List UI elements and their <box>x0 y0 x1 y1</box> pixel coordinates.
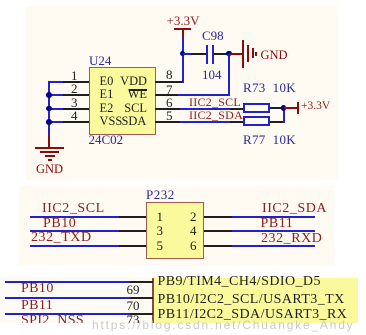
wire junction to C98 (blue) <box>183 53 192 55</box>
wire net IIC2_SDA from P232 (blue) <box>232 216 316 218</box>
wire net 232_RXD from P232 (blue) <box>232 245 316 247</box>
U24 pin 8 (black) <box>155 81 182 83</box>
ground (right) bar 2 <box>247 45 249 62</box>
pin number 73 <box>127 313 140 326</box>
wire to U24 pin 2 (blue) <box>49 94 63 96</box>
U24 pin name VDD <box>120 75 147 87</box>
U24 pin name WE (active low) <box>128 88 147 100</box>
power label +3.3V (right) <box>301 101 330 113</box>
ground (right) bar 4 <box>255 52 257 56</box>
P232 pin 5 (black) <box>119 245 147 247</box>
R73 right pin (black) <box>270 107 284 109</box>
value 24C02 <box>89 133 124 146</box>
P232 pin 2 (black) <box>204 216 232 218</box>
junction at pin 2 bus <box>46 92 52 98</box>
wire to U24 pin 4 (blue) <box>49 121 63 123</box>
connector P232 body <box>146 202 204 259</box>
watermark <box>92 319 354 331</box>
R73 left pin (black) <box>230 108 243 110</box>
pin number 1 <box>71 69 78 82</box>
ground label GND (right) <box>261 49 288 62</box>
MCU pin 69 (black) <box>130 297 153 299</box>
MCU pin 70 (black) <box>130 313 153 315</box>
designator P232 <box>146 188 175 201</box>
junction pullup rail <box>281 105 287 111</box>
overline of WE <box>129 89 148 90</box>
wire PB9 row (blue) <box>5 281 130 283</box>
U24 pin name E1 <box>100 88 114 100</box>
designator C98 <box>202 29 224 42</box>
MCU pin name PB9/TIM4_CH4/SDIO_D5 <box>158 275 321 289</box>
schematic background top strip <box>26 6 338 180</box>
wire net PB11 (blue) <box>5 313 130 315</box>
pin number 70 <box>127 299 140 312</box>
net label IIC2_SDA <box>189 109 243 121</box>
U24 pin 4 (black) <box>63 121 90 123</box>
R77 left pin (black) <box>230 121 243 123</box>
pin number 2 <box>71 82 78 95</box>
MCU pin name PB10/I2C2_SCL/USART3_TX <box>158 293 345 307</box>
wire net 232_TXD to P232 (blue) <box>30 245 119 247</box>
P232 pin 3 (black) <box>119 230 147 232</box>
C98 right pin (black) <box>214 53 229 55</box>
EEPROM U24 body <box>89 67 156 135</box>
pin number 8 <box>166 68 173 81</box>
pin number 7 <box>166 83 173 96</box>
net label 232_RXD <box>261 232 322 246</box>
wire to U24 pin 3 (blue) <box>49 108 63 110</box>
ground bar 1 <box>35 147 64 149</box>
net label PB10 (bottom) <box>21 282 54 296</box>
U24 pin 1 (black) <box>63 81 90 83</box>
net label SPI2_NSS <box>21 314 84 328</box>
MCU pin name PB11/I2C2_SDA/USART3_RX <box>158 308 348 322</box>
capacitor C98 plate right <box>212 45 214 64</box>
pin number 5 <box>166 109 173 122</box>
wire WE net vertical (blue) <box>228 54 230 97</box>
pin number 3 <box>71 96 78 109</box>
U24 pin 7 (black) <box>155 94 178 96</box>
ground (right) bar 3 <box>252 48 254 58</box>
ground (right) bar 1 <box>242 40 244 69</box>
U24 pin name SDA <box>122 115 147 127</box>
resistor R73 <box>243 103 270 113</box>
wire net IIC2_SCL (blue) <box>180 108 230 110</box>
ground bar 2 <box>40 151 59 153</box>
wire net PB10 to P232 (blue) <box>30 230 119 232</box>
pin number 4 <box>71 109 78 122</box>
designator R77 value 10K <box>243 133 296 146</box>
P232 pin number 2 <box>190 210 197 223</box>
MCU pin PB9 (black) <box>130 281 153 283</box>
P232 pin number 3 <box>157 224 164 237</box>
junction C98 / WE net / GND <box>226 51 232 57</box>
crop mask bottom <box>0 323 366 335</box>
net label IIC2_SCL <box>189 96 241 108</box>
value 104 <box>202 68 222 81</box>
wire net IIC2_SDA (blue) <box>180 121 230 123</box>
pin number 69 <box>127 283 140 296</box>
U24 pin 6 (black) <box>155 108 180 110</box>
ground label GND <box>36 163 63 176</box>
P232 pin number 5 <box>157 239 164 252</box>
junction at pin 4 bus <box>46 119 52 125</box>
MCU body fragment (yellow) <box>154 278 358 323</box>
U24 pin 5 (black) <box>155 121 180 123</box>
wire net PB10 (blue) <box>5 297 130 299</box>
wire to U24 pin 1 (blue) <box>48 81 63 83</box>
R77 right pin (black) <box>270 121 284 123</box>
power bar +3.3V (top) <box>174 28 192 30</box>
wire net IIC2_SCL to P232 (blue) <box>30 216 119 218</box>
pin number 6 <box>166 96 173 109</box>
P232 pin number 4 <box>190 224 197 237</box>
wire +3.3V rail down to pin 8 (blue) <box>182 38 184 83</box>
P232 pin 1 (black) <box>119 216 147 218</box>
U24 pin 3 (black) <box>63 108 90 110</box>
power bar +3.3V (right) <box>297 102 299 114</box>
net label PB10 (middle) <box>43 217 76 231</box>
ground bar 3 <box>45 155 55 157</box>
U24 pin name VSS <box>100 115 123 127</box>
wire GND stem below bus (dark red) <box>48 135 50 148</box>
U24 pin 2 (black) <box>63 94 90 96</box>
net label PB11 (bottom) <box>21 299 53 313</box>
net label IIC2_SDA (middle) <box>262 202 327 216</box>
P232 pin number 6 <box>190 239 197 252</box>
schematic background bottom strip <box>0 277 358 323</box>
wire to +3.3V (dark red) <box>284 107 298 109</box>
P232 pin number 1 <box>157 210 164 223</box>
ground bar 4 <box>48 159 52 161</box>
power stem +3.3V (dark red) <box>182 29 184 38</box>
designator U24 <box>89 54 111 67</box>
wire WE net horizontal (blue) <box>178 94 230 96</box>
P232 pin 4 (black) <box>204 230 232 232</box>
U24 pin name E0 <box>100 75 114 87</box>
net label 232_TXD <box>31 231 92 245</box>
junction +3.3V rail / C98 <box>180 51 186 57</box>
wire net bus left of U24 (blue vertical) <box>48 82 50 136</box>
capacitor C98 plate left <box>206 45 208 64</box>
P232 pin 6 (black) <box>204 245 232 247</box>
net label IIC2_SCL (middle) <box>42 202 105 216</box>
wire junction to GND symbol (dark red) <box>229 53 242 55</box>
U24 pin name E2 <box>100 102 114 114</box>
C98 left pin (black) <box>191 53 206 55</box>
resistor R77 <box>243 116 270 126</box>
U24 pin name SCL <box>124 102 147 114</box>
MCU left border <box>152 278 154 323</box>
designator R73 value 10K <box>243 81 296 94</box>
net label PB11 (middle) <box>261 217 294 231</box>
wire connecting R73/R77 outputs (blue) <box>283 107 285 123</box>
power label +3.3V (top) <box>167 14 200 27</box>
junction at pin 3 bus <box>46 106 52 112</box>
wire net PB11 from P232 (blue) <box>232 230 316 232</box>
schematic background middle strip <box>19 186 334 265</box>
